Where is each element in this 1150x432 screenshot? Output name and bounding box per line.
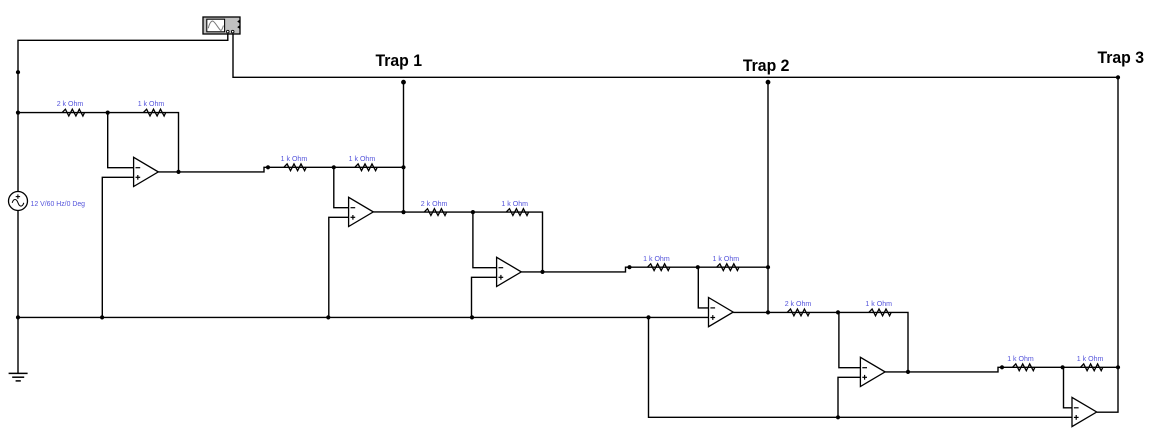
svg-text:Trap 2: Trap 2 xyxy=(743,56,790,75)
svg-text:1 k Ohm: 1 k Ohm xyxy=(713,254,740,263)
svg-text:1 k Ohm: 1 k Ohm xyxy=(501,199,528,208)
svg-text:1 k Ohm: 1 k Ohm xyxy=(865,299,892,308)
svg-text:1 k Ohm: 1 k Ohm xyxy=(138,99,165,108)
svg-text:12 V/60 Hz/0 Deg: 12 V/60 Hz/0 Deg xyxy=(31,199,86,208)
svg-text:2 k Ohm: 2 k Ohm xyxy=(421,199,448,208)
svg-text:1 k Ohm: 1 k Ohm xyxy=(643,254,670,263)
svg-text:1 k Ohm: 1 k Ohm xyxy=(1077,354,1104,363)
svg-text:2 k Ohm: 2 k Ohm xyxy=(785,299,812,308)
svg-text:2 k Ohm: 2 k Ohm xyxy=(57,99,84,108)
svg-text:Trap 3: Trap 3 xyxy=(1098,48,1145,67)
svg-text:1 k Ohm: 1 k Ohm xyxy=(1007,354,1034,363)
svg-text:1 k Ohm: 1 k Ohm xyxy=(281,154,308,163)
svg-text:Trap 1: Trap 1 xyxy=(376,51,423,70)
svg-text:1 k Ohm: 1 k Ohm xyxy=(349,154,376,163)
